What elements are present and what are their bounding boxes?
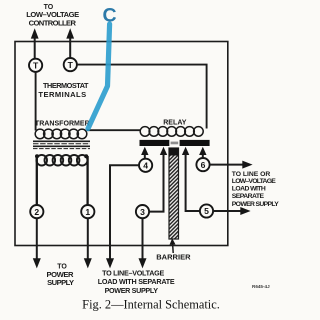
- svg-text:LOAD WITH SEPARATE: LOAD WITH SEPARATE: [98, 277, 175, 286]
- barrier (insulating strip): [169, 148, 179, 239]
- junction dot primary left lead: [35, 154, 39, 158]
- svg-text:1: 1: [85, 207, 90, 217]
- label THERMOSTAT TERMINALS: [38, 81, 89, 99]
- wire T2 to relay coil (right side top run): [77, 65, 207, 129]
- svg-text:TO LINE OR: TO LINE OR: [232, 171, 271, 178]
- svg-text:R645-4J: R645-4J: [252, 284, 270, 289]
- contact arrow to terminal 4: [141, 147, 148, 159]
- terminal 4: [139, 159, 152, 172]
- contact arrow + wire to terminal 3: [149, 147, 167, 212]
- svg-text:6: 6: [201, 160, 206, 170]
- svg-text:POWER SUPPLY: POWER SUPPLY: [232, 201, 279, 208]
- wire T1 down to transformer secondary: [35, 72, 37, 131]
- wire terminal 6 to external load arrow: [210, 161, 253, 169]
- wire secondary right end to relay coil: [87, 129, 141, 131]
- terminal 5: [200, 204, 213, 217]
- relay contact bar left: [140, 140, 170, 146]
- contact actuator link: [171, 142, 179, 145]
- svg-text:RELAY: RELAY: [163, 117, 186, 126]
- svg-text:3: 3: [140, 207, 145, 217]
- svg-text:CONTROLLER: CONTROLLER: [29, 18, 77, 27]
- svg-text:LOW–VOLTAGE: LOW–VOLTAGE: [232, 178, 276, 185]
- svg-text:POWER SUPPLY: POWER SUPPLY: [105, 286, 159, 295]
- terminal 3: [136, 205, 149, 218]
- svg-text:4: 4: [143, 161, 148, 171]
- enclosure box (case outline): [15, 42, 228, 246]
- relay contact bar right: [180, 140, 210, 146]
- barrier pointer arrow: [170, 238, 176, 253]
- junction dot primary right lead: [84, 154, 88, 158]
- wire terminal 2 down to power supply arrow: [33, 218, 41, 268]
- wire terminal 4 to line-voltage load arrow: [106, 165, 139, 268]
- label TO LINE-VOLTAGE LOAD WITH SEPARATE POWER SUPPLY: [98, 268, 175, 295]
- primary right lead down to terminal 1: [86, 156, 88, 205]
- arrow up from terminal T1 to controller: [31, 28, 39, 58]
- svg-text:SEPARATE: SEPARATE: [232, 193, 265, 200]
- contact arrow + wire to terminal 5: [182, 147, 200, 211]
- svg-text:5: 5: [204, 206, 209, 216]
- arrow up from terminal T2 to controller: [66, 28, 74, 58]
- svg-text:BARRIER: BARRIER: [156, 252, 191, 261]
- transformer core (laminations): [33, 141, 90, 148]
- wire terminal 3 down to line-voltage load arrow: [139, 218, 147, 268]
- svg-text:Fig. 2—Internal Schematic.: Fig. 2—Internal Schematic.: [82, 297, 220, 311]
- transformer primary winding: [36, 155, 87, 166]
- relay coil: [140, 127, 203, 137]
- primary left lead down to terminal 2: [36, 156, 38, 205]
- terminal T2: [64, 58, 77, 71]
- terminal 1: [81, 205, 94, 218]
- svg-text:SUPPLY: SUPPLY: [47, 278, 74, 287]
- wire terminal 5 to external load arrow: [213, 207, 251, 215]
- svg-text:2: 2: [34, 207, 39, 217]
- contact arrow to terminal 6: [199, 147, 206, 158]
- svg-text:T: T: [68, 60, 74, 70]
- annotation stroke (blue pen) pointing to node C: [88, 24, 110, 129]
- terminal 6: [196, 158, 209, 171]
- label TO POWER SUPPLY: [47, 264, 75, 287]
- label TO LOW-VOLTAGE CONTROLLER: [26, 4, 79, 28]
- svg-text:TRANSFORMER: TRANSFORMER: [35, 119, 90, 128]
- terminal 2: [30, 205, 43, 218]
- svg-text:T: T: [33, 61, 39, 71]
- label TO LINE OR LOW-VOLTAGE LOAD WITH SEPARATE POWER SUPPLY: [232, 171, 279, 208]
- svg-text:THERMOSTAT: THERMOSTAT: [43, 81, 89, 90]
- wire terminal 1 down to power supply arrow: [84, 218, 92, 268]
- svg-text:LOAD WITH: LOAD WITH: [232, 186, 266, 193]
- svg-text:TERMINALS: TERMINALS: [38, 90, 86, 99]
- transformer secondary winding: [35, 129, 87, 139]
- terminal T1: [29, 59, 42, 72]
